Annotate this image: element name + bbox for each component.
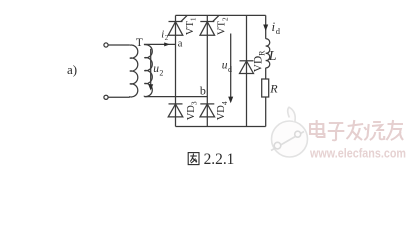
svg-text:L: L (268, 49, 277, 64)
svg-text:a: a (178, 38, 183, 49)
thyristor VT2 (200, 16, 219, 36)
current arrow id (263, 25, 268, 32)
svg-text:u: u (222, 60, 228, 72)
svg-text:d: d (276, 26, 281, 36)
wire primary bottom (108, 96, 130, 98)
wire L to R (265, 68, 267, 79)
wire secondary bottom to node b (144, 96, 207, 98)
watermark text 电子发烧友 (310, 120, 403, 140)
thyristor VT1 (168, 16, 187, 36)
svg-text:u: u (153, 63, 159, 75)
svg-text:R: R (269, 82, 278, 96)
电 (310, 124, 323, 134)
transformer T primary winding (130, 45, 138, 97)
wire primary top (108, 44, 130, 46)
svg-text:www.elecfans.com: www.elecfans.com (309, 145, 406, 160)
inductor L (266, 39, 270, 68)
wire left bridge leg (175, 15, 177, 126)
svg-text:d: d (228, 65, 232, 74)
友 (388, 123, 403, 125)
current arrow i2 (164, 42, 170, 46)
resistor R (262, 79, 269, 97)
wire right bridge leg (206, 15, 208, 126)
voltage arrow u2 (150, 49, 152, 85)
发 (348, 124, 363, 126)
diode VD3 (168, 104, 183, 117)
voltage arrow ud (230, 34, 232, 98)
svg-text:a): a) (67, 62, 77, 77)
transformer T secondary winding (144, 45, 152, 97)
wire load branch top (265, 15, 267, 38)
wire top rail (176, 14, 266, 16)
diode VD4 (200, 104, 215, 117)
terminal top-left (104, 43, 108, 47)
wire secondary top to node a (144, 43, 176, 45)
svg-text:2.2.1: 2.2.1 (204, 151, 235, 168)
terminal bottom-left (104, 95, 108, 99)
子 (329, 122, 343, 124)
wire bottom rail (176, 126, 266, 128)
caption 图 glyph (188, 153, 199, 165)
watermark logo circle (271, 107, 308, 157)
烧 (364, 124, 368, 140)
wire load branch bottom (265, 97, 267, 127)
wire freewheel branch (246, 15, 248, 126)
svg-text:b: b (200, 84, 206, 98)
svg-text:T: T (136, 37, 143, 49)
svg-text:2: 2 (159, 69, 163, 78)
freewheel diode VDR (240, 61, 254, 74)
